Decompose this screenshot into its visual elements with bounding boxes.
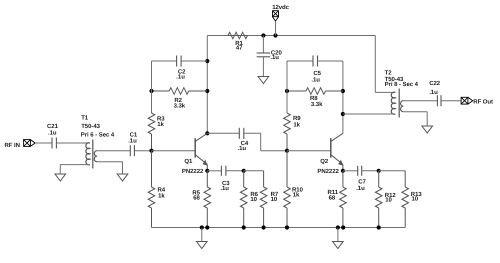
port RF Out (461, 97, 473, 104)
svg-text:T50-43: T50-43 (81, 123, 100, 130)
svg-text:T2: T2 (385, 70, 393, 77)
svg-text:.1u: .1u (311, 76, 320, 83)
capacitor C7 (358, 166, 362, 176)
wire (207, 170, 221, 172)
resistor R10 (284, 151, 291, 228)
svg-text:1k: 1k (293, 191, 300, 198)
wire (379, 170, 406, 172)
svg-text:.1u: .1u (429, 89, 438, 96)
node R6/rail (242, 225, 246, 229)
node C2/collector (205, 59, 209, 63)
svg-text:.1u: .1u (356, 185, 365, 192)
wire (342, 61, 344, 133)
wire (152, 60, 177, 62)
wire (244, 170, 264, 172)
wire (403, 100, 437, 102)
node C7/R12 (377, 169, 381, 173)
wire (375, 91, 395, 93)
svg-text:Q2: Q2 (320, 158, 329, 165)
node ground junction (200, 225, 204, 229)
wire (262, 57, 264, 77)
wire (59, 165, 61, 174)
svg-text:10: 10 (412, 196, 419, 203)
svg-text:10: 10 (271, 196, 278, 203)
wire (181, 60, 207, 62)
node R8/collector (341, 89, 345, 93)
wire (248, 35, 376, 37)
svg-text:R8: R8 (310, 95, 318, 102)
node Q1 collector (205, 131, 209, 135)
wire (207, 132, 239, 134)
svg-text:.1u: .1u (270, 54, 279, 61)
node Q2 base (285, 149, 289, 153)
svg-text:Pri 6 - Sec 4: Pri 6 - Sec 4 (81, 132, 115, 139)
resistor R8 (287, 88, 343, 95)
node R12/rail (377, 225, 381, 229)
wire (286, 61, 288, 113)
node ground junction (336, 225, 340, 229)
node 12vdc junction (273, 33, 277, 37)
resistor R2 (152, 88, 208, 95)
ground (197, 242, 208, 249)
node R11/rail (341, 225, 345, 229)
transformer T1 (86, 140, 97, 169)
svg-text:C1: C1 (130, 131, 138, 138)
node R2/ladder (149, 89, 153, 93)
resistor R3 (148, 113, 155, 151)
wire (441, 100, 461, 102)
resistor R1 (228, 32, 248, 39)
wire (97, 161, 123, 163)
node Q1 base (149, 149, 153, 153)
node R2/collector (205, 89, 209, 93)
wire (35, 142, 52, 144)
capacitor C3 (221, 166, 226, 176)
wire (60, 164, 90, 166)
resistor R7 (260, 171, 267, 228)
capacitor C22 (437, 95, 441, 106)
svg-text:.1u: .1u (220, 185, 229, 192)
wire (287, 60, 313, 62)
ground (117, 174, 128, 181)
svg-text:T1: T1 (81, 114, 89, 121)
wire (97, 150, 130, 152)
wire (275, 21, 277, 35)
resistor R12 (375, 171, 382, 228)
capacitor C2 (177, 56, 182, 67)
wire (134, 150, 151, 152)
svg-text:3.3k: 3.3k (174, 102, 186, 109)
wire (152, 227, 406, 229)
svg-text:RF Out: RF Out (473, 98, 493, 105)
wire (207, 35, 228, 37)
wire (262, 36, 264, 54)
wire (151, 61, 153, 113)
wire (318, 60, 343, 62)
node Q2 collector/T2 (341, 112, 345, 116)
ground (422, 126, 433, 133)
transformer T2 (391, 89, 403, 118)
capacitor C5 (313, 56, 318, 67)
svg-text:R9: R9 (293, 115, 301, 122)
port 12vdc (273, 11, 279, 21)
svg-text:C21: C21 (47, 123, 59, 130)
svg-text:.1u: .1u (128, 138, 137, 145)
wire (56, 142, 90, 144)
wire (261, 150, 287, 152)
svg-text:C5: C5 (313, 70, 321, 77)
svg-text:10: 10 (385, 196, 392, 203)
wire (343, 113, 395, 115)
svg-text:3.3k: 3.3k (311, 101, 323, 108)
node Q2 emitter (341, 169, 345, 173)
wire (206, 36, 208, 134)
transistor Q1 (152, 133, 208, 171)
resistor R13 (402, 171, 409, 228)
svg-text:C7: C7 (358, 179, 366, 186)
node Q1 emitter (205, 169, 209, 173)
svg-text:C22: C22 (429, 80, 441, 87)
ground (55, 174, 66, 181)
resistor R4 (148, 151, 155, 228)
wire (343, 170, 358, 172)
svg-text:1k: 1k (158, 192, 165, 199)
resistor R9 (284, 113, 291, 151)
resistor R5 (204, 171, 211, 228)
svg-text:68: 68 (193, 195, 200, 202)
capacitor C21 (52, 138, 56, 149)
svg-text:10: 10 (250, 196, 257, 203)
svg-text:68: 68 (329, 194, 336, 201)
wire (122, 162, 124, 174)
svg-text:1k: 1k (157, 121, 164, 128)
svg-text:PN2222: PN2222 (182, 168, 204, 175)
wire (337, 228, 339, 242)
ground (258, 77, 269, 84)
ground (333, 242, 344, 249)
svg-text:Pri 8 - Sec 4: Pri 8 - Sec 4 (385, 81, 419, 88)
wire (374, 36, 376, 93)
node R7/rail (262, 225, 266, 229)
port RF IN (24, 140, 36, 147)
wire (403, 111, 427, 113)
wire (426, 112, 428, 126)
svg-text:PN2222: PN2222 (317, 168, 339, 175)
svg-text:RF IN: RF IN (5, 142, 20, 149)
svg-text:47: 47 (236, 45, 243, 52)
wire (244, 132, 261, 134)
wire (260, 133, 262, 150)
transistor Q2 (287, 133, 343, 171)
wire (362, 170, 379, 172)
svg-text:.1u: .1u (176, 74, 185, 81)
svg-text:.1u: .1u (48, 130, 57, 137)
resistor R11 (340, 171, 347, 228)
node R10/rail (285, 225, 289, 229)
node VCC junction C20 (261, 33, 265, 37)
capacitor C1 (130, 145, 134, 156)
wire (226, 170, 244, 172)
capacitor C4 (239, 128, 244, 139)
svg-text:.1u: .1u (238, 145, 247, 152)
resistor R6 (240, 171, 247, 228)
capacitor C20 (257, 53, 270, 57)
node R5/rail (205, 225, 209, 229)
svg-text:1k: 1k (293, 122, 300, 129)
node R8/ladder (285, 89, 289, 93)
wire (201, 228, 203, 242)
svg-text:12vdc: 12vdc (272, 4, 289, 11)
node C3/R6 (242, 169, 246, 173)
svg-text:Q1: Q1 (184, 158, 193, 165)
